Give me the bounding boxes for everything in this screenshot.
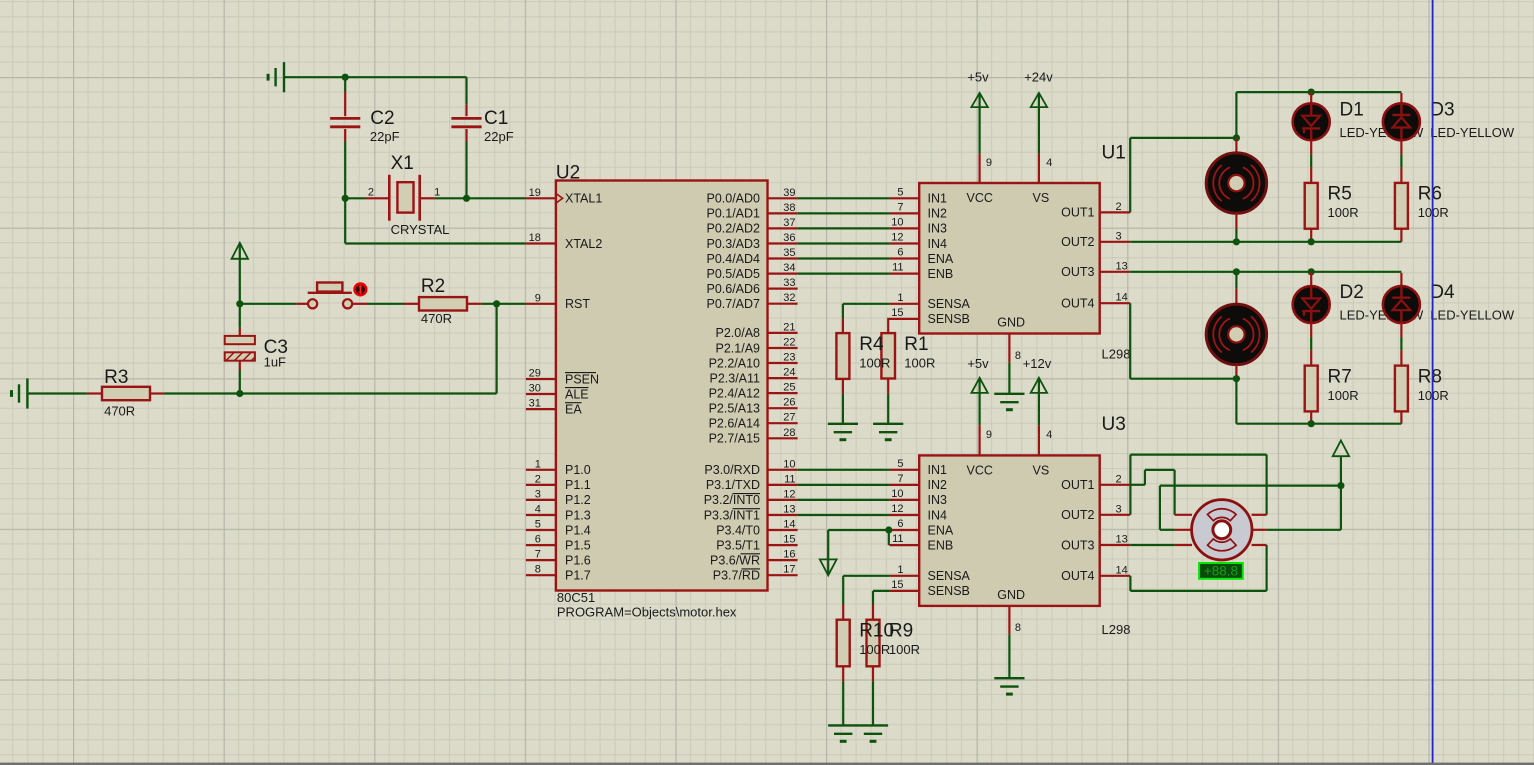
U2 pin 37 (P0.2/AD2) — [768, 227, 798, 229]
U1 SENSB bent lead to R1 — [888, 319, 919, 333]
U1 pin 3 (OUT2) — [1100, 241, 1131, 243]
LED D4 — [1400, 273, 1402, 286]
svg-text:10: 10 — [783, 458, 795, 470]
U2 pin 22 (P2.1/A9) — [768, 347, 798, 349]
svg-text:RST: RST — [565, 297, 590, 311]
capacitor C1 — [465, 77, 467, 104]
svg-text:P3.1/TXD: P3.1/TXD — [706, 478, 760, 492]
U1 pin 11 (ENB) — [889, 273, 919, 275]
wire to XTAL1 — [467, 197, 526, 199]
svg-text:P1.2: P1.2 — [565, 493, 591, 507]
wire P3 bus to U3 row 499.9 — [798, 499, 890, 501]
resistor R4 — [842, 319, 844, 334]
node: motor M2 bottom — [1233, 375, 1240, 382]
wire RST to button — [240, 303, 296, 305]
U2 pin 11 (P3.1/TXD) — [768, 484, 798, 486]
U2 pin 3 (P1.2) — [526, 499, 556, 501]
svg-text:R7: R7 — [1328, 366, 1352, 387]
motor M1 — [1235, 138, 1237, 154]
wire P0 bus to U1 row 258.5 — [798, 257, 890, 259]
svg-text:15: 15 — [783, 534, 795, 546]
svg-text:SENSB: SENSB — [928, 312, 970, 326]
svg-text:38: 38 — [783, 202, 795, 214]
U3 pin 4 (VS) stub — [1038, 425, 1040, 455]
resistor R9 — [872, 605, 874, 620]
node: motor M2 top — [1233, 268, 1240, 275]
wire C2 to X1 pin2 node — [344, 142, 346, 199]
svg-text:R2: R2 — [421, 276, 445, 297]
U2 pin 5 (P1.4) — [526, 529, 556, 531]
wire P3 bus to U3 row 515.0 — [798, 514, 890, 516]
svg-text:L298: L298 — [1102, 622, 1131, 637]
U3 pin 1 (SENSA) — [889, 575, 919, 577]
svg-text:D4: D4 — [1430, 282, 1455, 303]
U2 pin 13 (P3.3/INT1) — [768, 514, 798, 516]
svg-text:P0.3/AD3: P0.3/AD3 — [706, 237, 760, 251]
U2 pin 4 (P1.3) — [526, 514, 556, 516]
U2 pin 24 (P2.3/A11) — [768, 377, 798, 379]
wire P3 bus to U3 row 469.8 — [798, 469, 890, 471]
svg-text:12: 12 — [891, 503, 903, 515]
svg-text:100R: 100R — [859, 355, 890, 370]
svg-text:8: 8 — [535, 564, 541, 576]
svg-text:R5: R5 — [1328, 184, 1352, 205]
U3 pin 8 (GND) stub — [1008, 606, 1010, 634]
U1 pin 10 (IN3) — [889, 227, 919, 229]
svg-text:P0.6/AD6: P0.6/AD6 — [706, 282, 760, 296]
U3 pin 7 (IN2) — [889, 484, 919, 486]
svg-text:D3: D3 — [1430, 100, 1454, 121]
svg-text:22pF: 22pF — [370, 129, 400, 144]
svg-text:22: 22 — [783, 337, 795, 349]
svg-text:SENSA: SENSA — [928, 569, 971, 583]
svg-text:32: 32 — [783, 292, 795, 304]
svg-text:R1: R1 — [904, 334, 928, 355]
svg-text:18: 18 — [529, 232, 541, 244]
wire OUT3 rail — [1130, 271, 1401, 273]
wire OUT2 rail — [1130, 241, 1401, 243]
svg-text:4: 4 — [1046, 429, 1052, 441]
resistor R5 — [1310, 167, 1312, 183]
svg-text:1: 1 — [535, 458, 541, 470]
ALE overline — [565, 387, 589, 389]
node: D1 anode — [1308, 89, 1315, 96]
node: common terminal tie — [1337, 482, 1344, 489]
button interactive toggle marker — [355, 284, 367, 296]
svg-text:3: 3 — [535, 488, 541, 500]
svg-text:P1.5: P1.5 — [565, 538, 591, 552]
wire P0 bus to U1 row 273.6 — [798, 273, 890, 275]
resistor R1 — [881, 333, 895, 378]
U2 pin 1 (P1.0) — [526, 469, 556, 471]
svg-text:C2: C2 — [370, 108, 394, 129]
svg-text:OUT1: OUT1 — [1061, 206, 1094, 220]
U2 pin 23 (P2.2/A10) — [768, 362, 798, 364]
motor M2 — [1235, 272, 1237, 289]
svg-text:26: 26 — [783, 397, 795, 409]
wire SENSB (U3) to R9 — [873, 590, 889, 592]
U2 pin 6 (P1.5) — [526, 544, 556, 546]
svg-text:ENA: ENA — [928, 252, 954, 266]
node: X1 pin1 / C1 — [463, 195, 470, 202]
svg-text:1: 1 — [434, 187, 440, 199]
U2 pin 9 (RST) — [526, 303, 556, 305]
svg-text:13: 13 — [1116, 534, 1128, 546]
svg-text:LED-YELLOW: LED-YELLOW — [1430, 125, 1515, 140]
svg-text:ENB: ENB — [928, 538, 954, 552]
svg-text:ENA: ENA — [928, 523, 954, 537]
svg-text:OUT4: OUT4 — [1061, 569, 1094, 583]
svg-text:1: 1 — [897, 564, 903, 576]
svg-text:D1: D1 — [1340, 100, 1364, 121]
svg-text:P1.1: P1.1 — [565, 478, 591, 492]
svg-text:P3.7/RD: P3.7/RD — [713, 569, 760, 583]
wire U3 OUT3 to motor left-lower — [1130, 544, 1174, 546]
resistor R6 — [1400, 140, 1402, 154]
svg-text:P3.0/RXD: P3.0/RXD — [704, 463, 760, 477]
svg-text:9: 9 — [986, 157, 992, 169]
svg-text:P2.7/A15: P2.7/A15 — [709, 432, 760, 446]
svg-text:D2: D2 — [1340, 282, 1364, 303]
U2 pin 7 (P1.6) — [526, 559, 556, 561]
node: ENA/ENB tie — [885, 526, 892, 533]
ground (R10) — [828, 725, 858, 741]
svg-text:470R: 470R — [421, 311, 452, 326]
svg-text:39: 39 — [783, 187, 795, 199]
svg-text:VCC: VCC — [967, 463, 993, 477]
svg-text:37: 37 — [783, 217, 795, 229]
U1 pin 5 (IN1) — [889, 197, 919, 199]
wire P0 bus to U1 row 228.4 — [798, 227, 890, 229]
U1 pin 12 (IN4) — [889, 242, 919, 244]
svg-text:P3.2/INT0: P3.2/INT0 — [704, 493, 760, 507]
resistor R3 — [87, 392, 102, 394]
U2 pin 18 (XTAL2) — [526, 242, 556, 244]
svg-text:+5v: +5v — [967, 70, 989, 85]
svg-text:34: 34 — [783, 262, 795, 274]
svg-text:VCC: VCC — [967, 191, 993, 205]
svg-text:23: 23 — [783, 352, 795, 364]
resistor R7 — [1310, 350, 1312, 366]
svg-text:P2.0/A8: P2.0/A8 — [716, 326, 761, 340]
U2 pin 16 (P3.6/WR) — [768, 559, 798, 561]
svg-text:13: 13 — [1116, 260, 1128, 272]
svg-text:1uF: 1uF — [264, 354, 286, 369]
svg-text:14: 14 — [1116, 564, 1128, 576]
svg-text:28: 28 — [783, 427, 795, 439]
WR overline — [741, 553, 761, 555]
INT1 overline — [733, 508, 761, 510]
U1 pin 2 (OUT1) — [1100, 211, 1131, 213]
wire gnd to R3 — [27, 392, 87, 394]
wire XTAL2 net — [344, 198, 346, 243]
svg-text:+5v: +5v — [967, 356, 989, 371]
svg-text:36: 36 — [783, 232, 795, 244]
svg-text:IN1: IN1 — [928, 463, 948, 477]
U3 pin 9 (VCC) stub — [978, 425, 980, 455]
svg-text:19: 19 — [529, 187, 541, 199]
svg-text:PSEN: PSEN — [565, 372, 599, 386]
U2 pin 35 (P0.4/AD4) — [768, 257, 798, 259]
svg-text:1: 1 — [897, 292, 903, 304]
node: X1 pin2 / C2 — [342, 195, 349, 202]
node: RST junction — [236, 300, 243, 307]
wire X1 left lead — [345, 197, 365, 199]
svg-text:+24v: +24v — [1024, 70, 1053, 85]
PSEN overline — [565, 372, 596, 374]
svg-text:11: 11 — [784, 473, 795, 485]
svg-text:5: 5 — [897, 458, 903, 470]
svg-text:ENB: ENB — [928, 267, 954, 281]
down terminal (ENA/ENB) — [827, 530, 829, 575]
U2 pin 2 (P1.1) — [526, 484, 556, 486]
svg-text:15: 15 — [891, 307, 903, 319]
wire OUT1 to motor/LED rail — [1129, 138, 1131, 213]
wire X1 right lead — [420, 197, 435, 199]
svg-text:OUT1: OUT1 — [1061, 478, 1094, 492]
svg-text:7: 7 — [897, 201, 903, 213]
svg-text:XTAL1: XTAL1 — [565, 192, 602, 206]
EA overline — [565, 402, 582, 404]
power terminal (RST pull-up arrow) — [232, 243, 248, 259]
U2 pin 8 (P1.7) — [526, 574, 556, 576]
resistor R8 — [1400, 323, 1402, 337]
U3 pin 12 (IN4) — [889, 514, 919, 516]
U2 pin 19 (XTAL1) — [526, 197, 556, 199]
svg-text:100R: 100R — [1328, 388, 1359, 403]
ground (R4) — [828, 424, 858, 440]
svg-text:P1.4: P1.4 — [565, 523, 591, 537]
wire U3 OUT1 staircase to motor left-upper — [1130, 484, 1145, 486]
svg-text:14: 14 — [1116, 292, 1128, 304]
crystal X1 — [388, 175, 391, 221]
wire P0 bus to U1 row 243.5 — [798, 242, 890, 244]
ground (U1 GND) — [994, 394, 1024, 410]
svg-text:P0.4/AD4: P0.4/AD4 — [706, 252, 760, 266]
motor driver U3 (L298) body — [919, 455, 1099, 606]
svg-text:P3.3/INT1: P3.3/INT1 — [704, 508, 760, 522]
U1 pin 9 (VCC) stub — [978, 153, 980, 183]
svg-text:P2.6/A14: P2.6/A14 — [709, 417, 760, 431]
svg-text:470R: 470R — [104, 403, 135, 418]
svg-text:P3.6/WR: P3.6/WR — [710, 553, 760, 567]
svg-text:SENSB: SENSB — [928, 584, 970, 598]
svg-text:VS: VS — [1033, 463, 1050, 477]
svg-text:30: 30 — [529, 383, 541, 395]
svg-text:8: 8 — [1015, 350, 1021, 362]
svg-text:P1.3: P1.3 — [565, 508, 591, 522]
U1 pin 8 (GND) stub — [1008, 334, 1010, 363]
wire common rail to motor left-middle — [1160, 485, 1341, 487]
svg-text:6: 6 — [897, 518, 903, 530]
svg-text:17: 17 — [783, 564, 795, 576]
svg-text:IN3: IN3 — [928, 222, 948, 236]
svg-text:100R: 100R — [859, 642, 890, 657]
window edge strip — [0, 763, 1534, 765]
svg-text:35: 35 — [783, 247, 795, 259]
svg-text:13: 13 — [783, 504, 795, 516]
U2 pin 34 (P0.5/AD5) — [768, 273, 798, 275]
svg-text:80C51: 80C51 — [557, 590, 595, 605]
svg-text:P0.5/AD5: P0.5/AD5 — [706, 267, 760, 281]
svg-text:GND: GND — [997, 588, 1025, 602]
svg-text:PROGRAM=Objects\motor.hex: PROGRAM=Objects\motor.hex — [557, 604, 737, 619]
ground (R9) — [858, 725, 888, 741]
node: R2 / RST feedback junction — [493, 300, 500, 307]
svg-text:OUT2: OUT2 — [1061, 235, 1094, 249]
svg-text:100R: 100R — [1328, 205, 1359, 220]
ground (U3 GND) — [994, 678, 1024, 694]
wire SENSA to R4 — [843, 303, 890, 305]
svg-text:24: 24 — [783, 367, 795, 379]
svg-text:P0.1/AD1: P0.1/AD1 — [706, 207, 760, 221]
svg-text:IN1: IN1 — [928, 192, 948, 206]
svg-text:10: 10 — [891, 488, 903, 500]
svg-text:P2.3/A11: P2.3/A11 — [709, 371, 760, 385]
svg-text:2: 2 — [368, 187, 374, 199]
svg-text:4: 4 — [1046, 157, 1052, 169]
svg-text:12: 12 — [783, 488, 795, 500]
svg-text:P2.5/A13: P2.5/A13 — [709, 402, 760, 416]
U2 pin 32 (P0.7/AD7) — [768, 303, 798, 305]
svg-text:21: 21 — [783, 321, 795, 333]
svg-text:X1: X1 — [391, 153, 414, 174]
LED D3 — [1400, 93, 1402, 103]
svg-text:IN3: IN3 — [928, 493, 948, 507]
svg-text:R6: R6 — [1418, 184, 1442, 205]
U3 pin 5 (IN1) — [889, 469, 919, 471]
U2 pin 30 (ALE) — [526, 393, 556, 395]
svg-text:16: 16 — [783, 549, 795, 561]
svg-text:5: 5 — [897, 186, 903, 198]
svg-text:IN4: IN4 — [928, 508, 948, 522]
XTAL1 clock marker — [556, 194, 562, 203]
U3 pin 15 (SENSB) — [889, 590, 919, 592]
U1 pin 4 (VS) stub — [1038, 153, 1040, 183]
U2 pin 29 (PSEN) — [526, 378, 556, 380]
node: motor M1 bottom — [1233, 238, 1240, 245]
svg-text:C1: C1 — [484, 108, 508, 129]
U2 pin 33 (P0.6/AD6) — [768, 288, 798, 290]
svg-text:XTAL2: XTAL2 — [565, 237, 602, 251]
svg-text:22pF: 22pF — [484, 129, 514, 144]
node: gnd/C2 junction — [342, 74, 349, 81]
svg-text:P3.4/T0: P3.4/T0 — [716, 523, 760, 537]
INT0 overline — [733, 493, 761, 495]
svg-text:6: 6 — [897, 247, 903, 259]
svg-text:SENSA: SENSA — [928, 297, 971, 311]
wire C1 to X1 pin1 node — [465, 142, 467, 199]
svg-text:2: 2 — [1116, 201, 1122, 213]
wire R3 to RST junction — [164, 392, 497, 394]
svg-text:VS: VS — [1033, 191, 1050, 205]
svg-text:7: 7 — [535, 549, 541, 561]
U1 pin 6 (ENA) — [889, 257, 919, 259]
svg-text:EA: EA — [565, 402, 582, 416]
wire U3 OUT2 up-over to motor right-upper — [1129, 455, 1131, 515]
svg-text:33: 33 — [783, 277, 795, 289]
svg-text:100R: 100R — [904, 355, 935, 370]
capacitor C3 (electrolytic) — [239, 304, 241, 328]
svg-text:P2.4/A12: P2.4/A12 — [709, 386, 760, 400]
svg-text:OUT2: OUT2 — [1061, 508, 1094, 522]
svg-text:R9: R9 — [889, 620, 913, 641]
microcontroller U2 (80C51) body — [556, 181, 768, 591]
svg-text:5: 5 — [535, 519, 541, 531]
wire ENA/ENB to terminal — [828, 529, 889, 531]
svg-text:8: 8 — [1015, 622, 1021, 634]
svg-text:14: 14 — [783, 519, 795, 531]
U2 pin 21 (P2.0/A8) — [768, 332, 798, 334]
U2 pin 38 (P0.1/AD1) — [768, 212, 798, 214]
motor M3 (with tachometer) — [1175, 514, 1192, 516]
svg-text:6: 6 — [535, 534, 541, 546]
svg-text:25: 25 — [783, 382, 795, 394]
svg-text:R4: R4 — [859, 334, 884, 355]
svg-text:R8: R8 — [1418, 366, 1442, 387]
svg-text:2: 2 — [1116, 473, 1122, 485]
svg-text:P1.7: P1.7 — [565, 569, 591, 583]
svg-text:IN2: IN2 — [928, 207, 948, 221]
svg-text:31: 31 — [529, 398, 541, 410]
LED D2 — [1310, 272, 1312, 286]
U2 pin 26 (P2.5/A13) — [768, 407, 798, 409]
RD overline — [742, 568, 761, 570]
svg-text:P2.1/A9: P2.1/A9 — [716, 341, 761, 355]
wire junction down to C3/R3 net — [496, 304, 498, 394]
node: C3 / R3 junction — [236, 390, 243, 397]
U2 pin 14 (P3.4/T0) — [768, 529, 798, 531]
svg-text:4: 4 — [535, 504, 541, 516]
U2 pin 25 (P2.4/A12) — [768, 392, 798, 394]
resistor R10 — [842, 605, 844, 620]
wire button to R2 — [368, 303, 405, 305]
push button (reset) — [296, 303, 307, 305]
U2 pin 39 (P0.0/AD0) — [768, 197, 798, 199]
svg-text:U2: U2 — [556, 163, 580, 184]
svg-text:2: 2 — [535, 473, 541, 485]
U2 pin 15 (P3.5/T1) — [768, 544, 798, 546]
sheet border (blue) — [1432, 0, 1434, 765]
svg-text:3: 3 — [1116, 230, 1122, 242]
svg-text:GND: GND — [997, 316, 1025, 330]
svg-text:IN4: IN4 — [928, 237, 948, 251]
svg-text:9: 9 — [535, 292, 541, 304]
svg-text:15: 15 — [891, 579, 903, 591]
U2 pin 17 (P3.7/RD) — [768, 574, 798, 576]
svg-text:OUT3: OUT3 — [1061, 538, 1094, 552]
svg-text:IN2: IN2 — [928, 478, 948, 492]
up terminal (motor common) — [1340, 456, 1342, 485]
svg-text:ALE: ALE — [565, 387, 589, 401]
ground (left, R3) — [12, 378, 28, 408]
svg-text:11: 11 — [892, 262, 903, 274]
svg-text:9: 9 — [986, 429, 992, 441]
U2 pin 36 (P0.3/AD3) — [768, 242, 798, 244]
U3 pin 10 (IN3) — [889, 499, 919, 501]
U1 pin 7 (IN2) — [889, 212, 919, 214]
motor driver U1 (L298) body — [919, 183, 1099, 334]
motor M3 speed display — [1199, 563, 1243, 579]
svg-text:P3.5/T1: P3.5/T1 — [716, 538, 760, 552]
node: motor M1 top — [1233, 134, 1240, 141]
U1 pin 13 (OUT3) — [1100, 271, 1131, 273]
wire P0 bus to U1 row 213.4 — [798, 212, 890, 214]
node: R5 bottom — [1308, 238, 1315, 245]
wire U3 OUT4 under-over to motor right-lower — [1129, 576, 1131, 591]
svg-text:U1: U1 — [1102, 143, 1126, 164]
svg-text:U3: U3 — [1102, 414, 1126, 435]
